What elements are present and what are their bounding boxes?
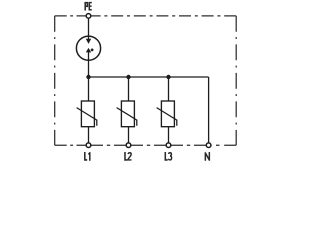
varistor RV2 diagonal stroke bbox=[117, 108, 137, 126]
bus wire horizontal bbox=[89, 76, 209, 78]
label L2 bbox=[125, 152, 132, 160]
enclosure dashed border right bbox=[235, 16, 237, 145]
spark gap bottom arrowhead bbox=[86, 48, 91, 53]
spark gap trigger dot bbox=[91, 49, 94, 52]
enclosure dashed border bottom L1-to-L2 segment bbox=[89, 144, 129, 146]
terminal PE bbox=[86, 14, 91, 19]
varistor RV3 body bbox=[161, 101, 174, 127]
enclosure dashed border left bbox=[54, 16, 56, 145]
wire varistor RV2 to L2 terminal bbox=[128, 127, 130, 143]
enclosure dashed border top-right segment bbox=[89, 15, 237, 17]
wire bus to N terminal bbox=[208, 77, 210, 143]
terminal N bbox=[206, 143, 211, 148]
label PE bbox=[85, 3, 92, 11]
wire bus to varistor RV3 bbox=[168, 77, 170, 101]
enclosure dashed border bottom N-to-corner segment bbox=[209, 144, 237, 146]
wire varistor RV3 to L3 terminal bbox=[168, 127, 170, 143]
terminal L2 bbox=[126, 143, 131, 148]
label N bbox=[205, 152, 209, 161]
varistor RV3 diagonal stroke bbox=[157, 108, 177, 126]
varistor RV1 diagonal stroke bbox=[77, 108, 97, 126]
wire spark gap to bus bbox=[88, 52, 90, 77]
label L3 bbox=[165, 152, 171, 160]
junction node L2 bbox=[126, 75, 130, 79]
enclosure dashed border bottom L2-to-L3 segment bbox=[129, 144, 169, 146]
varistor RV2 body bbox=[121, 101, 134, 127]
terminal L3 bbox=[166, 143, 171, 148]
enclosure dashed border bottom L3-to-N segment bbox=[169, 144, 209, 146]
spark gap U1 circle bbox=[76, 36, 100, 60]
spark gap top arrowhead bbox=[86, 39, 91, 44]
junction node L3 bbox=[166, 75, 170, 79]
wire PE terminal to spark gap bbox=[88, 16, 90, 40]
label L1 bbox=[85, 152, 90, 161]
enclosure dashed border bottom corner-to-L1 segment bbox=[55, 144, 89, 146]
enclosure dashed border top-left segment bbox=[55, 15, 89, 17]
terminal L1 bbox=[86, 143, 91, 148]
varistor RV1 body bbox=[81, 101, 94, 127]
wire bus to varistor RV1 bbox=[88, 77, 90, 101]
junction node L1 bbox=[86, 75, 90, 79]
wire bus to varistor RV2 bbox=[128, 77, 130, 101]
wire varistor RV1 to L1 terminal bbox=[88, 127, 90, 143]
